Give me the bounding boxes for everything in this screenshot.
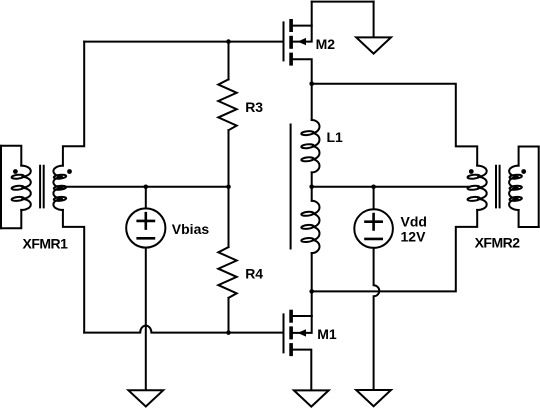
Vbias minus sign: [138, 237, 154, 240]
MOSFET M1 source lead: [293, 350, 311, 391]
wire right image edge vertical: [538, 147, 540, 228]
inductor L1 lower winding: [312, 201, 320, 253]
MOSFET M2 drain lead: [293, 2, 312, 26]
wire left vertical from top rail down to XFMR1 secondary top lead: [63, 42, 84, 166]
transformer XFMR1 secondary winding: [53, 166, 63, 210]
wire R3 bottom lead: [228, 130, 230, 187]
wire M1 drain lead up to bottom rail: [311, 291, 313, 316]
wire XFMR2 secondary top lead to right image edge: [519, 147, 539, 166]
wire XFMR2 secondary bottom lead to right image edge: [519, 210, 539, 227]
svg-text:Vdd: Vdd: [401, 213, 427, 229]
wire R4 bottom lead: [228, 298, 230, 333]
ground symbol bottom right for Vdd: [356, 390, 391, 406]
wire Vbias top lead: [145, 187, 147, 209]
MOSFET M1 gate plate: [283, 314, 285, 352]
ground symbol top right: [356, 37, 391, 53]
ground symbol for Vbias: [128, 390, 163, 406]
transformer XFMR2 primary winding: [477, 166, 487, 210]
MOSFET M1 body line with arrow: [293, 316, 312, 333]
node junction dot L1 center tap: [309, 185, 314, 190]
wire mid rail from M2 source to XFMR2 primary top: [312, 84, 478, 166]
MOSFET M1 arrow head: [298, 329, 306, 336]
node junction dot R4 bottom gate rail: [226, 330, 231, 335]
voltage source Vdd circle: [354, 209, 393, 248]
MOSFET M1 drain lead: [293, 315, 312, 317]
Vdd minus sign: [366, 238, 382, 241]
resistor R4: [218, 247, 236, 298]
transformer XFMR2 core: [496, 166, 500, 208]
resistor R3: [218, 79, 236, 130]
svg-text:Vbias: Vbias: [172, 221, 210, 237]
MOSFET M2 channel bars: [289, 19, 293, 66]
transformer XFMR2 secondary polarity dot: [521, 169, 526, 174]
ground symbol bottom middle for M1: [294, 390, 329, 406]
wire L1 lower winding to bottom rail: [311, 253, 313, 291]
transformer XFMR2 primary polarity dot: [469, 169, 474, 174]
wire bottom gate rail from XFMR1 side to M1 gate with hop over Vbias ground wire: [84, 326, 283, 333]
MOSFET M2 gate plate: [283, 22, 285, 60]
svg-text:M2: M2: [316, 36, 336, 52]
svg-text:L1: L1: [327, 129, 344, 145]
node junction dot Vbias top: [144, 185, 149, 190]
MOSFET M1 channel bars: [289, 310, 293, 356]
wire top gate rail from XFMR1 to M2 gate: [84, 41, 283, 43]
wire XFMR1 primary bottom lead to left image edge: [1, 210, 21, 228]
svg-text:XFMR1: XFMR1: [23, 236, 69, 252]
wire center supply rail from L1 tap to Vdd and XFMR2 center tap: [312, 186, 469, 188]
inductor L1 upper winding: [312, 120, 320, 172]
svg-text:R3: R3: [245, 99, 263, 115]
MOSFET M2 body line with arrow: [293, 26, 312, 42]
svg-text:12V: 12V: [401, 228, 427, 244]
transformer XFMR1 core: [40, 166, 44, 208]
node junction dot Vdd top: [371, 185, 376, 190]
Vdd plus sign: [366, 214, 382, 229]
svg-text:M1: M1: [317, 326, 337, 342]
wire Vdd bottom lead with hop over bottom rail: [374, 248, 380, 390]
wire left bias rail from XFMR1 secondary center tap to R3-R4 junction: [63, 186, 229, 188]
node junction dot R3 R4 bias rail: [226, 185, 231, 190]
wire left image edge vertical: [0, 146, 2, 228]
wire R3 top lead: [228, 42, 230, 80]
node junction dot L1 bottom M1 drain: [309, 289, 314, 294]
wire L1 upper winding to center tap: [311, 172, 313, 186]
MOSFET M2 source lead: [293, 59, 312, 84]
transformer XFMR1 secondary polarity dot: [67, 169, 72, 174]
wire R4 top lead: [228, 187, 230, 247]
wire top-right ground lead: [373, 2, 375, 38]
wire Vbias bottom lead to ground: [145, 248, 147, 391]
inductor L1 core line: [290, 125, 292, 249]
wire bottom rail from L1 bottom to XFMR2 primary bottom: [312, 210, 478, 292]
transformer XFMR1 primary polarity dot: [13, 169, 18, 174]
Vbias plus sign: [138, 213, 154, 228]
wire L1 center tap upper lead: [311, 187, 313, 201]
transformer XFMR2 secondary winding: [509, 166, 519, 210]
MOSFET M2 arrow head: [298, 38, 306, 45]
wire XFMR1 primary top lead to left image edge: [1, 146, 21, 166]
node junction dot gate rail R3: [226, 39, 231, 44]
wire XFMR1 secondary bottom lead down to bottom gate rail: [63, 210, 84, 333]
wire from mid rail junction down to L1 top: [311, 84, 313, 120]
transformer XFMR1 primary winding: [21, 166, 31, 210]
wire Vdd top lead: [373, 187, 375, 209]
svg-text:R4: R4: [245, 265, 263, 281]
svg-text:XFMR2: XFMR2: [475, 235, 521, 251]
voltage source Vbias circle: [126, 208, 165, 247]
wire top rail from M2 drain to top-right ground: [312, 1, 374, 3]
node junction dot M2 source mid rail: [309, 82, 314, 87]
